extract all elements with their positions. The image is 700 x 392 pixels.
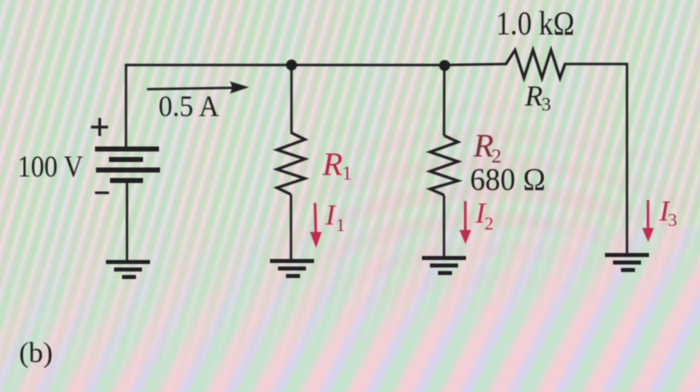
wire node A down to resistor R1 xyxy=(290,65,292,133)
battery V1 minus sign xyxy=(95,192,109,195)
svg-text:0.5 A: 0.5 A xyxy=(159,90,220,123)
svg-text:3: 3 xyxy=(542,95,552,116)
current arrow I2 xyxy=(460,201,472,244)
svg-text:100 V: 100 V xyxy=(18,149,84,184)
svg-text:1: 1 xyxy=(342,163,352,185)
resistor R3 xyxy=(506,50,565,78)
wire from R3 to right corner and down right branch xyxy=(564,64,627,253)
svg-text:1.0 kΩ: 1.0 kΩ xyxy=(496,5,575,42)
wire node B down to resistor R2 xyxy=(443,65,446,136)
wire R1 down to ground xyxy=(290,195,292,260)
wire from battery positive up to top rail xyxy=(126,65,292,150)
resistor R1 xyxy=(277,133,305,195)
current arrow I3 xyxy=(642,200,654,242)
resistor R2 xyxy=(430,136,458,196)
svg-text:(b): (b) xyxy=(19,337,53,369)
battery V1 plus sign xyxy=(91,118,108,136)
wire R2 down to ground xyxy=(443,195,445,256)
node B junction dot xyxy=(439,60,450,71)
svg-text:I: I xyxy=(325,200,337,232)
current arrow 0.5 A xyxy=(147,81,249,93)
svg-text:680 Ω: 680 Ω xyxy=(470,161,546,197)
svg-text:2: 2 xyxy=(485,214,494,234)
svg-text:R: R xyxy=(322,147,343,183)
battery V1 plates xyxy=(95,147,160,184)
ground (right branch) xyxy=(605,253,649,272)
svg-text:R: R xyxy=(473,129,494,165)
svg-text:1: 1 xyxy=(336,215,345,235)
ground (R2) xyxy=(422,256,466,275)
wire top rail between node A and node B xyxy=(292,64,445,66)
current arrow I1 xyxy=(310,203,322,248)
svg-text:3: 3 xyxy=(668,210,677,230)
svg-text:R: R xyxy=(524,81,543,113)
node A junction dot xyxy=(286,60,297,71)
wire from node B to resistor R3 xyxy=(445,64,507,65)
wire battery negative down to ground xyxy=(126,183,128,260)
ground (R1) xyxy=(270,259,314,278)
ground (battery) xyxy=(106,260,150,279)
